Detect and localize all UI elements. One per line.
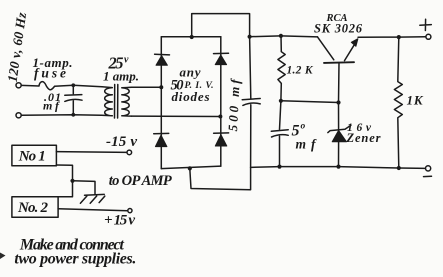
diode D3 bottom-left xyxy=(154,133,169,146)
node top rail at 1K xyxy=(397,35,401,39)
wire No1 to -15V terminal xyxy=(56,151,127,154)
node -15V terminal xyxy=(127,150,132,155)
svg-text:two power supplies.: two power supplies. xyxy=(14,251,136,268)
transformer T1 secondary winding xyxy=(122,87,132,116)
node +15V terminal xyxy=(128,209,132,213)
node top rail at 1.2K xyxy=(279,34,283,38)
wire center tap to ground xyxy=(73,181,96,195)
diode D4 bottom-right xyxy=(214,133,229,146)
svg-text:v: v xyxy=(124,55,129,66)
node plus sign xyxy=(420,19,432,30)
wire secondary top to bridge left xyxy=(132,86,161,88)
wire series link No1 to No2 xyxy=(56,165,72,197)
wire bridge bottom edge xyxy=(161,166,221,169)
node bottom rail at zener xyxy=(336,165,340,169)
box supply No 1 xyxy=(12,145,57,166)
wire base row xyxy=(281,101,339,103)
edge mark bottom left xyxy=(0,253,6,260)
node minus sign xyxy=(424,175,432,177)
svg-text:SK 3026: SK 3026 xyxy=(314,22,363,36)
transistor Q1 base lead xyxy=(338,63,341,103)
node center tap xyxy=(70,179,74,183)
svg-text:+ 15 v: + 15 v xyxy=(104,213,135,229)
wire top rail to + terminal xyxy=(399,36,426,38)
wire top rail to collector xyxy=(281,36,318,37)
node bottom rail at 50mf xyxy=(277,165,281,169)
node C1 bottom junction xyxy=(71,113,75,117)
wire AC hot to fuse xyxy=(21,84,32,86)
transistor Q1 collector xyxy=(318,37,334,60)
svg-text:o: o xyxy=(301,122,306,132)
resistor R2 1K xyxy=(394,37,402,168)
transistor Q1 emitter with arrow xyxy=(345,39,358,61)
node bridge DC+ xyxy=(190,35,194,39)
wire C1 node to transformer primary top xyxy=(73,85,102,87)
node bridge AC right xyxy=(218,115,222,119)
wire bottom rail xyxy=(251,167,426,169)
svg-text:1.2 K: 1.2 K xyxy=(287,64,314,76)
node base row right xyxy=(336,100,340,104)
zener diode D5 16v xyxy=(328,103,351,167)
capacitor C3 50 mf xyxy=(271,101,288,167)
wire emitter to top rail right xyxy=(358,36,399,38)
wire bridge DC- jumper to rail xyxy=(190,167,251,189)
svg-text:120 v, 60 Hz: 120 v, 60 Hz xyxy=(5,11,30,83)
svg-text:to OP AMP: to OP AMP xyxy=(109,173,172,189)
node base row left xyxy=(279,99,283,103)
svg-text:mf: mf xyxy=(43,98,60,112)
wire bridge right side xyxy=(220,37,222,166)
svg-text:No 1: No 1 xyxy=(18,149,46,165)
wire bridge left side xyxy=(160,37,162,169)
node bridge DC- xyxy=(188,166,192,170)
node C1 top junction xyxy=(71,83,75,87)
wire top rail to 1.2K node xyxy=(250,35,281,38)
svg-text:-15 v: -15 v xyxy=(106,134,137,150)
svg-text:Zener: Zener xyxy=(346,131,381,145)
node bridge AC left xyxy=(159,85,163,89)
svg-text:1 amp.: 1 amp. xyxy=(103,69,139,84)
wire secondary bottom to bridge right xyxy=(132,115,220,117)
diode D2 top-right xyxy=(214,53,229,64)
transistor Q1 base bar xyxy=(324,61,354,64)
wire bridge top edge xyxy=(161,36,221,38)
node AC line terminal bottom xyxy=(16,113,21,118)
wire AC neutral xyxy=(21,114,101,117)
wire No2 to +15V terminal xyxy=(58,209,128,211)
svg-text:mf: mf xyxy=(296,137,318,152)
node output terminal + xyxy=(426,34,431,39)
svg-text:No. 2: No. 2 xyxy=(17,200,49,216)
node bottom rail at 1K xyxy=(397,166,401,170)
wire bridge DC+ jumper to rail xyxy=(192,14,250,37)
svg-text:1 K: 1 K xyxy=(407,93,424,108)
capacitor C1 .01 mf xyxy=(65,85,82,115)
diode D1 top-left xyxy=(155,54,170,65)
fuse F1 1-amp xyxy=(33,82,55,90)
box supply No 2 xyxy=(12,197,58,218)
capacitor C2 500 mf xyxy=(242,37,260,168)
transformer T1 core xyxy=(115,85,118,119)
ground xyxy=(80,194,104,203)
resistor R1 1.2K xyxy=(278,36,285,101)
node output terminal - xyxy=(426,166,431,171)
wire fuse to C1 node xyxy=(55,85,74,86)
transformer T1 primary winding xyxy=(102,87,113,116)
node AC line terminal top xyxy=(16,83,21,88)
node top rail at 500mf xyxy=(248,35,252,39)
svg-text:500 mf: 500 mf xyxy=(225,77,243,131)
svg-text:diodes: diodes xyxy=(172,89,210,104)
